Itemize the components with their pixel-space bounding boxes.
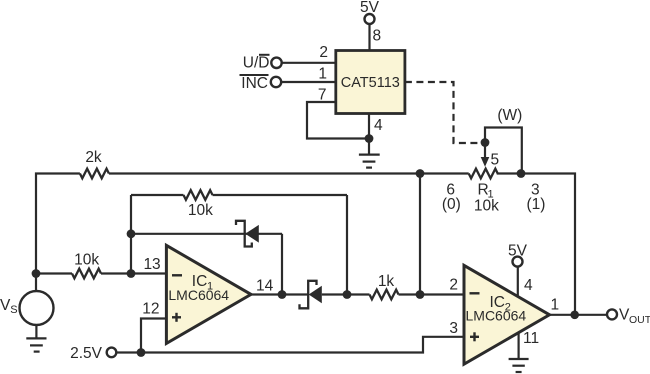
resistor 10k feedback [131,190,347,219]
terminal VOUT [607,307,650,327]
IC1 inverting input marker [172,274,182,276]
svg-text:(0): (0) [442,196,461,213]
source Vs [0,274,54,326]
wiper node dot [481,138,490,147]
resistor 1k [370,273,399,299]
svg-text:4: 4 [374,117,383,134]
terminal 2.5V [70,345,116,362]
svg-text:3: 3 [449,320,458,337]
terminal INC input [240,75,282,92]
ground (Vs) [26,325,46,352]
ground (CAT5113) [359,139,380,168]
digital potentiometer U1 CAT5113 [336,51,405,114]
junction R1 pin 3 node [517,169,526,178]
IC2 non-inverting input marker [470,336,479,338]
svg-text:5: 5 [491,152,500,169]
wire rail branch vertical [419,174,421,295]
ground (IC2) [509,359,529,372]
schottky diode D1 [236,221,259,247]
resistor 2k [80,149,109,178]
svg-text:1k: 1k [378,273,395,290]
wire IC2 output [550,314,608,316]
terminal 5V supply (top) [360,0,380,24]
svg-text:10k: 10k [188,202,213,219]
svg-text:12: 12 [142,301,159,318]
svg-text:2: 2 [319,44,328,61]
svg-text:13: 13 [143,256,160,273]
wire U/D to pin 2 [282,62,336,64]
junction rail branch / IC2 input [416,290,425,299]
wire left rail riser (Vs node up to rail) [36,174,80,274]
wire D1 down to output node [281,234,283,295]
svg-text:4: 4 [524,277,533,294]
potentiometer wiper arrow [481,143,490,167]
svg-text:CAT5113: CAT5113 [341,75,400,91]
svg-text:7: 7 [318,87,327,104]
schottky diode D2 [300,281,322,309]
svg-text:S: S [10,304,17,316]
IC2 inverting input marker [470,292,480,294]
svg-text:1: 1 [551,297,560,314]
terminal 5V (IC2 supply) [508,243,528,267]
wire pin 7 to ground node [307,102,369,139]
op-amp IC1 LMC6064 [166,245,251,343]
wire 5V terminal to pin 8 [368,24,370,51]
wire pin 11 to ground [517,334,519,360]
resistor R1 10k potentiometer element [442,169,546,215]
wire 10k to IC1 inverting input [101,272,166,274]
dashed control link CAT5113 wiper [405,82,481,143]
wire pin 4 to ground node [368,114,370,141]
wire 1k to IC2 inverting input [399,293,465,295]
wire feedback riser [130,195,132,274]
junction inverting input node [127,269,136,278]
junction rail / IC2 input branch [416,169,425,178]
wire rail 2k to R1 [109,172,469,174]
svg-text:2.5V: 2.5V [70,345,103,362]
wire wiper to terminal 3 loop (W) [485,128,522,174]
svg-text:14: 14 [256,278,274,295]
op-amp IC2 LMC6064 [464,265,550,364]
svg-text:8: 8 [373,28,382,45]
junction pin4/pin7 ground node [365,134,374,143]
svg-text:U/D: U/D [243,55,270,72]
svg-text:(W): (W) [497,107,522,124]
wire rail right end down to output node [497,174,575,315]
resistor 10k input [72,252,101,279]
svg-text:10k: 10k [474,198,499,215]
terminal U/D input [243,55,282,72]
junction output node [570,311,579,320]
wire D2 to feedback junction [322,293,370,295]
svg-text:(1): (1) [527,196,546,213]
svg-text:LMC6064: LMC6064 [168,287,229,303]
svg-text:11: 11 [523,330,539,347]
svg-text:OUT: OUT [629,314,650,326]
wire 2.5V line to IC2 non-inverting input [141,337,464,353]
junction feedback/1k node [343,290,352,299]
wire INC to pin 1 [281,81,336,83]
svg-text:1: 1 [318,66,327,83]
wire output node to D2 [282,293,308,295]
wire feedback drop to output line [346,195,348,295]
svg-text:INC: INC [241,75,268,92]
svg-text:10k: 10k [74,252,99,269]
svg-text:LMC6064: LMC6064 [466,308,527,324]
wire 2.5V to junction [116,351,141,353]
wire pin 12 riser from 2.5V line [141,319,166,353]
wire 5V to pin 4 [517,266,519,296]
junction output node IC1 [278,290,287,299]
IC1 non-inverting input marker [172,316,181,318]
svg-text:2k: 2k [85,149,102,166]
wire Vs to 10k [36,272,72,274]
junction feedback riser / diode branch [127,229,136,238]
svg-text:2: 2 [449,277,458,294]
wire IC1 output [251,293,282,295]
wire diode D1 branch [131,233,282,235]
junction 2.5V node [137,348,146,357]
junction Vs node [32,269,41,278]
